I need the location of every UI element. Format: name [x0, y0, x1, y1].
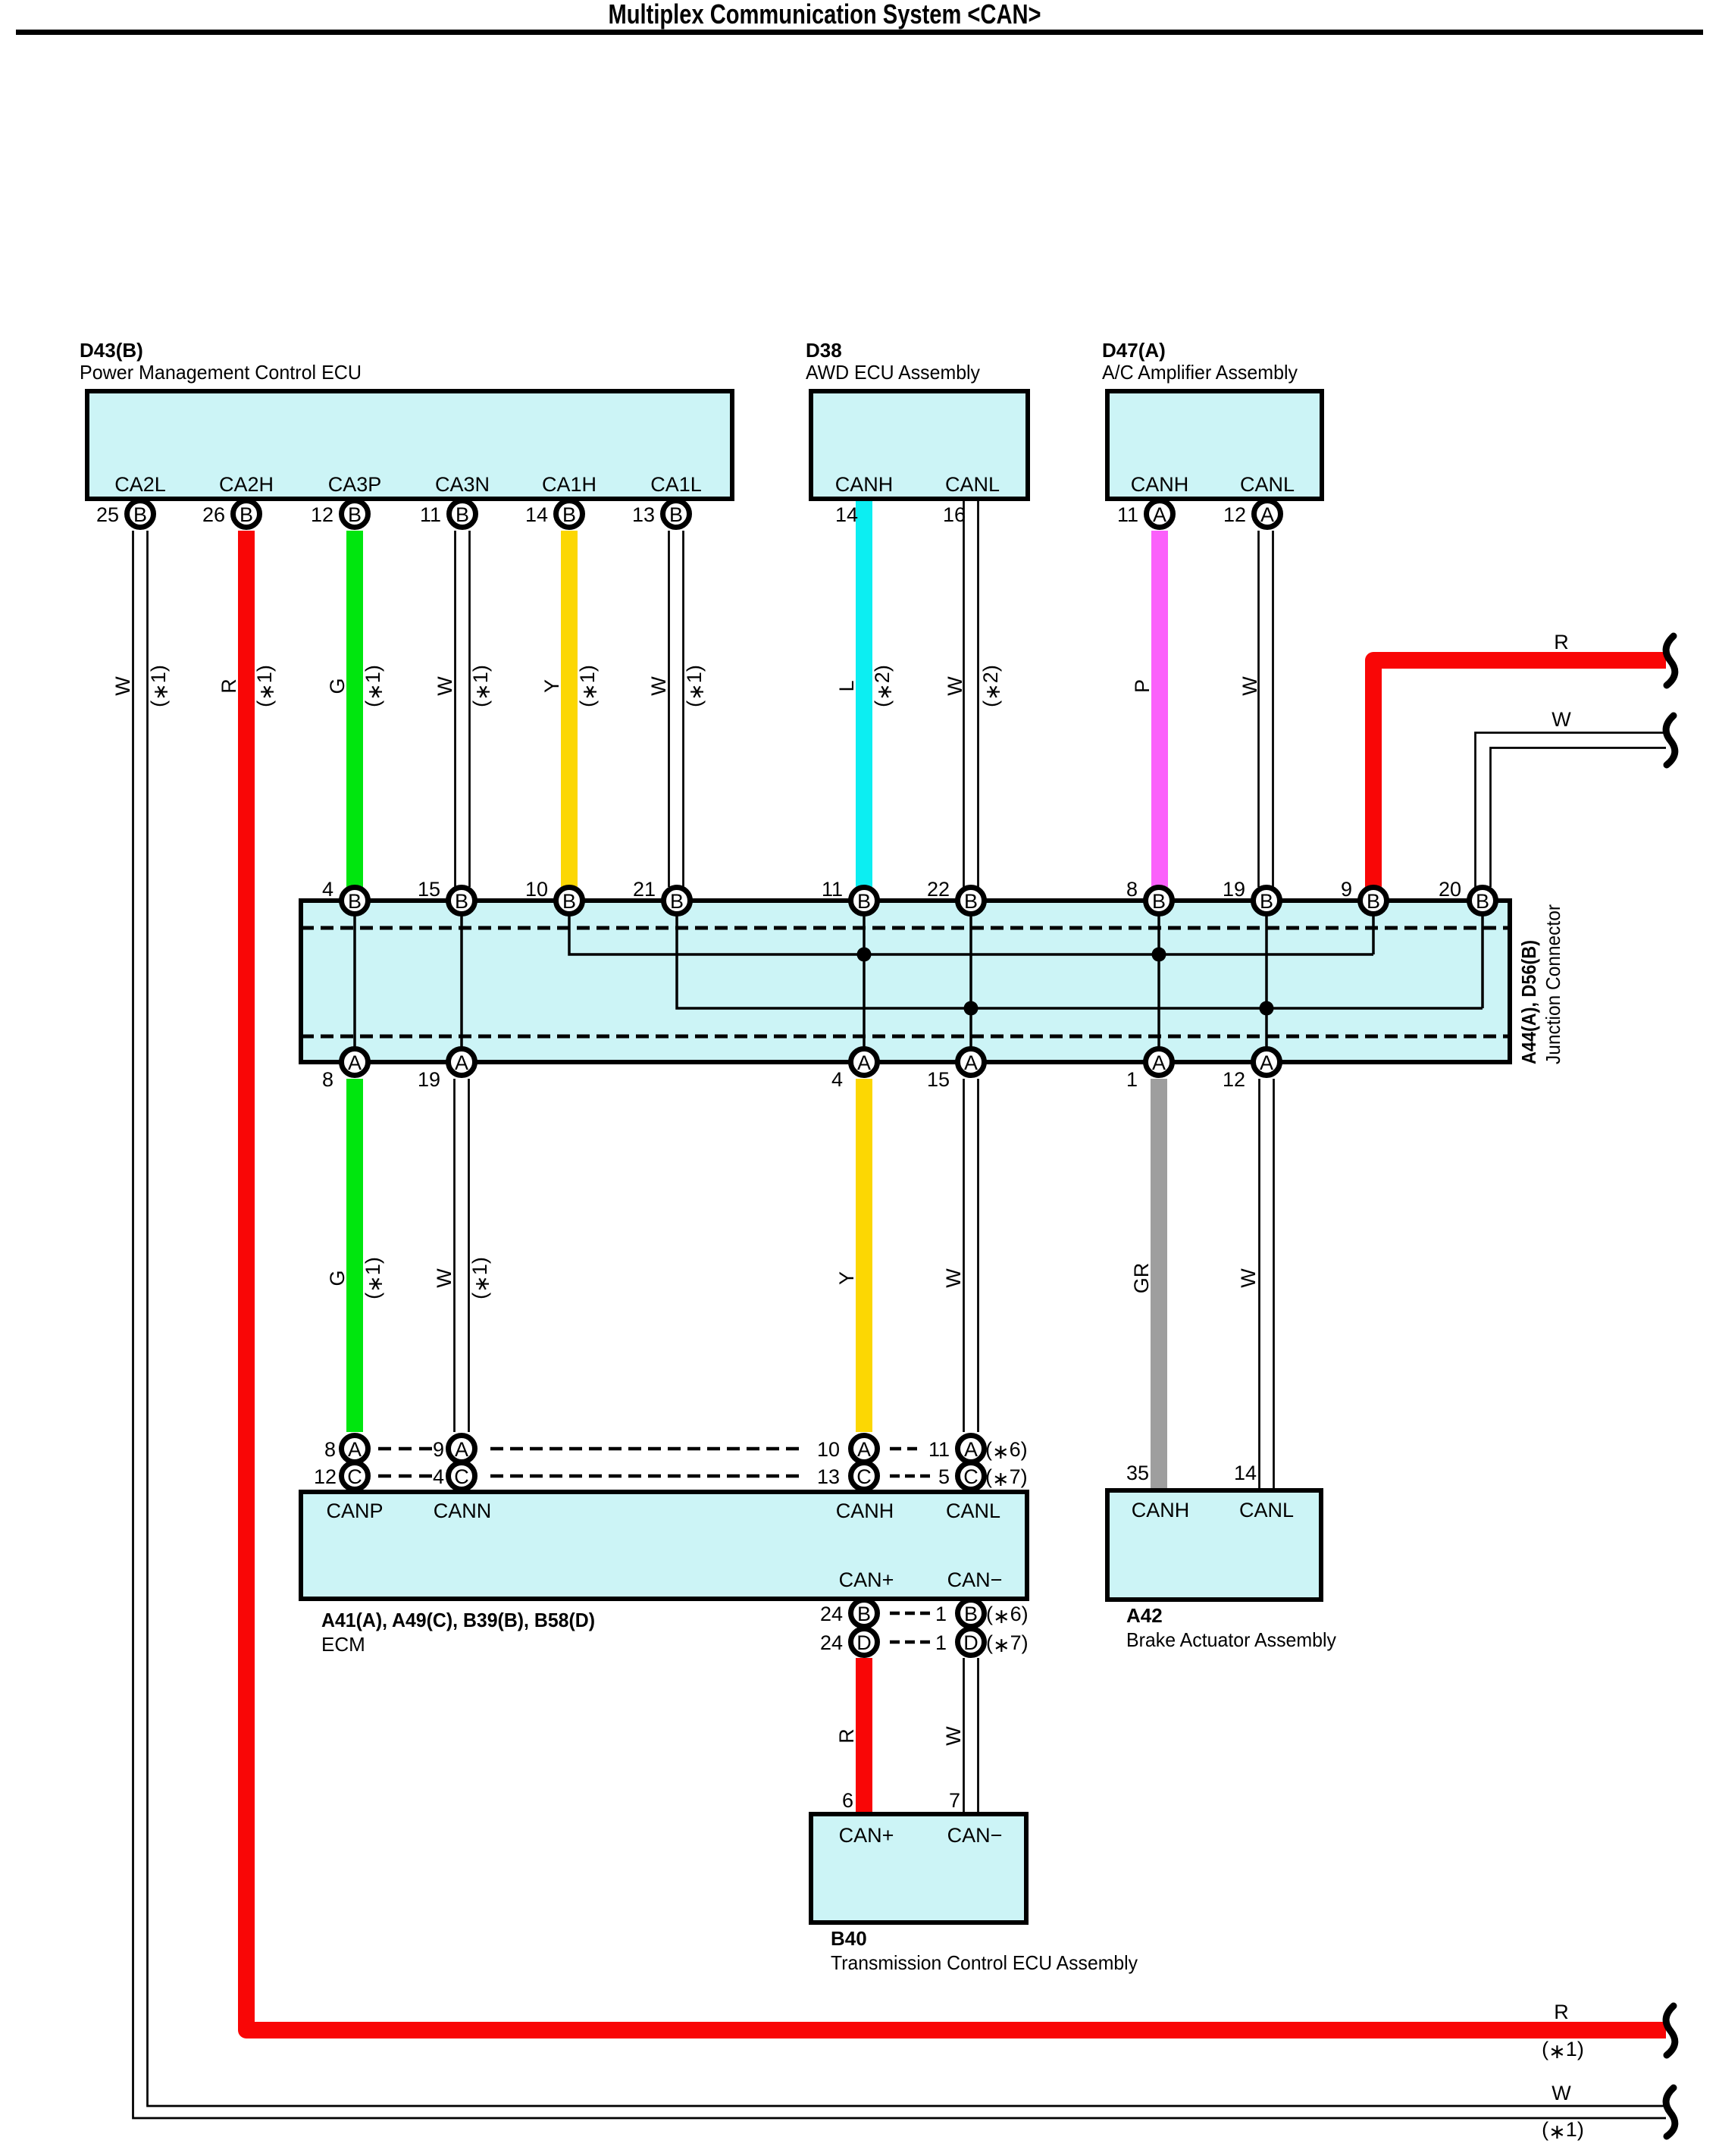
svg-text:CANN: CANN	[434, 1499, 492, 1522]
ECM terminal 11(A)	[958, 1436, 985, 1462]
junction bottom pin 8(A)	[342, 1049, 368, 1076]
terminal D43 pin 25(B)	[127, 501, 154, 528]
svg-text:R: R	[218, 678, 240, 694]
svg-text:24: 24	[820, 1631, 843, 1654]
svg-text:B: B	[857, 890, 871, 913]
svg-text:15: 15	[418, 878, 440, 901]
svg-text:11: 11	[822, 878, 843, 901]
svg-text:A: A	[1260, 503, 1274, 526]
svg-text:12: 12	[1223, 1068, 1245, 1091]
svg-text:13: 13	[632, 503, 655, 526]
svg-text:26: 26	[202, 503, 225, 526]
svg-text:10: 10	[525, 878, 548, 901]
wire white W: junction 12(A) to brake actuator pin 14	[1258, 1079, 1260, 1488]
junction dot CANL x 19(B)	[1260, 1001, 1274, 1016]
svg-text:(∗6): (∗6)	[986, 1603, 1029, 1628]
svg-text:W: W	[433, 1268, 456, 1288]
svg-text:CANH: CANH	[1132, 1499, 1190, 1521]
break symbol on red wire top right	[1666, 636, 1675, 685]
svg-text:(∗7): (∗7)	[986, 1631, 1029, 1656]
svg-text:(∗1): (∗1)	[469, 665, 494, 707]
svg-text:A: A	[964, 1438, 978, 1461]
svg-text:B: B	[562, 890, 576, 913]
brake actuator A42 box	[1107, 1490, 1321, 1600]
svg-text:Y: Y	[835, 1271, 858, 1285]
wire CA1L white W (*1): D43 pin 13(B) to junction 21(B)	[668, 531, 670, 887]
svg-text:Multiplex Communication System: Multiplex Communication System <CAN>	[609, 0, 1041, 30]
svg-text:20: 20	[1439, 878, 1461, 901]
svg-text:B40: B40	[831, 1927, 867, 1950]
wire D47 CANL white W: pin 12(A) to junction 19(B)	[1257, 531, 1260, 887]
svg-text:4: 4	[831, 1068, 843, 1091]
wire CA2H red: D43 pin 26(B) down then right to page edge (R *1)	[246, 531, 1666, 2030]
svg-text:CANH: CANH	[1131, 473, 1189, 496]
ECM terminal 1(B)	[958, 1600, 985, 1627]
svg-text:11: 11	[1117, 503, 1138, 526]
svg-text:CA1L: CA1L	[650, 473, 702, 496]
svg-text:B: B	[455, 890, 468, 913]
terminal D47 pin 12(A)	[1254, 501, 1281, 528]
junction top pin 20(B)	[1470, 888, 1496, 914]
svg-text:A: A	[455, 1438, 468, 1461]
ECM terminal 12(C)	[342, 1463, 368, 1490]
junction top pin 10(B)	[556, 888, 583, 914]
svg-text:W: W	[111, 676, 134, 696]
svg-text:(∗1): (∗1)	[683, 665, 708, 707]
junction connector A44(A) D56(B) box	[301, 901, 1510, 1062]
junction internal wire 15(B)-19(A)	[460, 901, 463, 1062]
junction internal wire 19(B)-12(A)	[1265, 901, 1268, 1062]
svg-text:A: A	[1152, 1051, 1166, 1074]
junction dot CANH x 8(B)	[1152, 948, 1166, 962]
svg-text:CANL: CANL	[1239, 1499, 1294, 1521]
junction bottom pin 1(A)	[1146, 1049, 1173, 1076]
svg-text:W: W	[1551, 708, 1571, 731]
svg-text:G: G	[326, 1270, 349, 1286]
svg-text:CANH: CANH	[835, 473, 894, 496]
title rule	[16, 30, 1703, 35]
junction bottom pin 15(A)	[958, 1049, 985, 1076]
svg-text:(∗2): (∗2)	[979, 665, 1004, 707]
svg-text:CAN+: CAN+	[839, 1568, 894, 1591]
svg-text:B: B	[1260, 890, 1273, 913]
wire green G (*1): junction 8(A) to ECM 8(A)/12(C)	[346, 1079, 363, 1432]
svg-text:C: C	[963, 1465, 978, 1488]
svg-text:12: 12	[1223, 503, 1246, 526]
svg-text:CA2H: CA2H	[219, 473, 274, 496]
svg-text:B: B	[1152, 890, 1166, 913]
svg-text:A: A	[857, 1051, 871, 1074]
ECM option dashes row B bottom	[890, 1612, 930, 1615]
svg-text:W: W	[1551, 2082, 1571, 2104]
wire CA3N white W (*1): D43 pin 11(B) to junction 15(B)	[454, 531, 456, 887]
svg-text:12: 12	[314, 1465, 337, 1488]
wire yellow Y: junction 4(A) to ECM 10(A)/13(C)	[856, 1079, 872, 1432]
svg-text:(∗2): (∗2)	[871, 665, 896, 707]
ECM terminal 1(D)	[958, 1629, 985, 1656]
break symbol on red wire bottom right	[1666, 2006, 1675, 2055]
terminal D43 pin 13(B)	[663, 501, 690, 528]
terminal D43 pin 14(B)	[556, 501, 583, 528]
svg-text:11: 11	[928, 1438, 950, 1461]
terminal D47 pin 11(A)	[1147, 501, 1173, 528]
svg-text:B: B	[133, 503, 147, 526]
junction internal lower dashed bus guide	[301, 1035, 1510, 1039]
terminal D43 pin 12(B)	[342, 501, 368, 528]
wire CA1H yellow Y (*1): D43 pin 14(B) to junction 10(B)	[561, 531, 578, 887]
svg-text:10: 10	[817, 1438, 840, 1461]
svg-text:B: B	[1367, 890, 1380, 913]
junction top pin 22(B)	[958, 888, 985, 914]
svg-text:G: G	[326, 678, 349, 694]
terminal D43 pin 11(B)	[449, 501, 476, 528]
svg-text:B: B	[669, 503, 683, 526]
svg-text:L: L	[835, 680, 858, 691]
svg-text:GR: GR	[1130, 1263, 1153, 1294]
svg-text:W: W	[942, 1268, 965, 1288]
wire gray GR: junction 1(A) to brake actuator pin 35	[1151, 1079, 1167, 1488]
junction internal wire from 20(B) to CANL bus	[1481, 901, 1484, 1008]
svg-text:Transmission Control ECU Assem: Transmission Control ECU Assembly	[831, 1951, 1138, 1974]
svg-text:CAN−: CAN−	[947, 1824, 1003, 1847]
svg-text:W: W	[944, 676, 966, 696]
svg-text:D38: D38	[806, 339, 842, 362]
svg-text:8: 8	[322, 1068, 333, 1091]
junction top pin 8(B)	[1146, 888, 1173, 914]
svg-text:AWD ECU Assembly: AWD ECU Assembly	[806, 361, 980, 384]
svg-text:W: W	[434, 676, 456, 696]
svg-text:9: 9	[1341, 878, 1352, 901]
svg-text:1: 1	[935, 1603, 947, 1625]
svg-text:W: W	[647, 676, 670, 696]
svg-text:(∗1): (∗1)	[362, 1257, 387, 1299]
svg-text:6: 6	[842, 1789, 853, 1812]
svg-text:B: B	[240, 503, 253, 526]
svg-text:CAN−: CAN−	[947, 1568, 1003, 1591]
svg-text:14: 14	[1234, 1462, 1257, 1484]
svg-text:B: B	[456, 503, 469, 526]
svg-text:15: 15	[927, 1068, 950, 1091]
junction bottom pin 12(A)	[1254, 1049, 1280, 1076]
wire white W: ECM CAN- 1(D) to B40 pin 7	[963, 1658, 965, 1812]
svg-text:CANP: CANP	[326, 1499, 383, 1522]
ECM option dashes row A	[378, 1447, 432, 1451]
svg-text:D47(A): D47(A)	[1102, 339, 1166, 362]
junction dot CANL x 22(B)	[964, 1001, 978, 1016]
ECM terminal 24(B)	[851, 1600, 878, 1627]
wire white W: junction 15(A) to ECM 11(A)/5(C)	[963, 1079, 965, 1432]
svg-text:12: 12	[311, 503, 333, 526]
junction top pin 21(B)	[664, 888, 690, 914]
svg-text:4: 4	[433, 1465, 444, 1488]
svg-text:R: R	[1554, 631, 1569, 653]
svg-text:CA3N: CA3N	[435, 473, 490, 496]
wire white W from right page edge to junction 20(B)	[1476, 733, 1667, 888]
transmission control ECU B40 box	[811, 1814, 1026, 1923]
wire white W (*1): junction 19(A) to ECM 9(A)/4(C)	[453, 1079, 456, 1432]
svg-text:4: 4	[322, 878, 333, 901]
svg-text:14: 14	[835, 503, 858, 526]
svg-text:B: B	[562, 503, 576, 526]
svg-text:C: C	[454, 1465, 469, 1488]
ECU D47(A) A/C Amplifier Assembly box	[1107, 391, 1322, 499]
svg-text:A: A	[1153, 503, 1166, 526]
svg-text:25: 25	[96, 503, 119, 526]
svg-text:P: P	[1131, 679, 1154, 693]
svg-text:24: 24	[820, 1603, 843, 1625]
svg-text:CANL: CANL	[946, 1499, 1000, 1522]
svg-text:C: C	[856, 1465, 872, 1488]
terminal D43 pin 26(B)	[233, 501, 260, 528]
svg-text:R: R	[1554, 2001, 1569, 2023]
svg-text:A42: A42	[1126, 1604, 1163, 1627]
break symbol on white wire bottom right	[1666, 2088, 1675, 2136]
ECM option dashes row D bottom	[890, 1641, 930, 1644]
junction internal wire 22(B)-15(A)	[969, 901, 972, 1062]
svg-text:ECM: ECM	[321, 1633, 365, 1656]
wire CA3P green G (*1): D43 pin 12(B) to junction 4(B)	[346, 531, 363, 887]
ECU D38 AWD ECU Assembly box	[811, 391, 1028, 499]
svg-text:B: B	[964, 1603, 978, 1625]
svg-text:(∗1): (∗1)	[147, 665, 172, 707]
svg-text:D: D	[963, 1631, 978, 1654]
ECM terminal 10(A)	[851, 1436, 878, 1462]
svg-text:Power Management Control ECU: Power Management Control ECU	[80, 361, 362, 384]
break symbol on white wire top right	[1666, 716, 1675, 765]
ECM terminal 5(C)	[958, 1463, 985, 1490]
svg-text:(∗1): (∗1)	[253, 665, 278, 707]
svg-text:B: B	[857, 1603, 871, 1625]
svg-text:7: 7	[949, 1789, 960, 1812]
junction top pin 19(B)	[1254, 888, 1280, 914]
svg-text:CANL: CANL	[1240, 473, 1295, 496]
junction top pin 4(B)	[342, 888, 368, 914]
svg-text:D: D	[856, 1631, 872, 1654]
svg-text:19: 19	[1223, 878, 1245, 901]
svg-text:A41(A), A49(C), B39(B), B58(D): A41(A), A49(C), B39(B), B58(D)	[321, 1609, 595, 1631]
svg-text:(∗7): (∗7)	[985, 1465, 1028, 1490]
svg-text:A: A	[455, 1051, 468, 1074]
svg-text:A44(A), D56(B): A44(A), D56(B)	[1517, 940, 1540, 1064]
svg-text:14: 14	[525, 503, 548, 526]
svg-text:21: 21	[633, 878, 656, 901]
svg-text:A: A	[857, 1438, 871, 1461]
wire red R: ECM CAN+ 24(D) to B40 pin 6	[856, 1658, 872, 1812]
junction dot CANH x 11(B)	[857, 948, 872, 962]
svg-text:(∗1): (∗1)	[362, 665, 387, 707]
svg-text:CA1H: CA1H	[542, 473, 596, 496]
junction top pin 11(B)	[851, 888, 878, 914]
svg-text:5: 5	[938, 1465, 950, 1488]
svg-text:A: A	[1260, 1051, 1273, 1074]
svg-text:16: 16	[943, 503, 966, 526]
wire CA2L white: D43 pin 25(B) down then right to page edge (W *1)	[133, 531, 1667, 2118]
svg-text:C: C	[347, 1465, 362, 1488]
svg-text:CA2L: CA2L	[114, 473, 166, 496]
svg-text:Brake Actuator Assembly: Brake Actuator Assembly	[1126, 1628, 1336, 1651]
svg-text:B: B	[348, 503, 362, 526]
svg-text:(∗1): (∗1)	[1542, 2118, 1584, 2143]
svg-text:R: R	[835, 1728, 858, 1744]
svg-text:A: A	[964, 1051, 978, 1074]
ECM terminal 13(C)	[851, 1463, 878, 1490]
ECM terminal 8(A)	[342, 1436, 368, 1462]
ECM terminal 4(C)	[449, 1463, 475, 1490]
ECU D43(B) Power Management Control ECU box	[87, 391, 732, 499]
junction internal wire 4(B)-8(A)	[353, 901, 356, 1062]
svg-text:19: 19	[418, 1068, 440, 1091]
ECM terminal 24(D)	[851, 1629, 878, 1656]
svg-text:13: 13	[817, 1465, 840, 1488]
svg-text:W: W	[1238, 676, 1261, 696]
wire D47 CANH pink P: pin 11(A) to junction 8(B)	[1151, 531, 1168, 887]
svg-text:35: 35	[1126, 1462, 1149, 1484]
junction internal wire 8(B)-1(A)	[1157, 901, 1160, 1062]
junction internal upper dashed bus guide	[301, 926, 1510, 930]
svg-text:W: W	[942, 1726, 965, 1746]
svg-text:CANH: CANH	[836, 1499, 894, 1522]
svg-text:CAN+: CAN+	[839, 1824, 894, 1847]
junction internal wire from 10(B) to CANH bus	[569, 901, 1373, 954]
ECM terminal 9(A)	[449, 1436, 475, 1462]
svg-text:22: 22	[927, 878, 950, 901]
junction internal wire 11(B)-4(A)	[863, 901, 866, 1062]
svg-text:11: 11	[420, 503, 441, 526]
svg-text:A: A	[348, 1438, 362, 1461]
svg-text:(∗1): (∗1)	[576, 665, 601, 707]
svg-text:9: 9	[433, 1438, 444, 1461]
svg-text:1: 1	[935, 1631, 947, 1654]
svg-text:(∗1): (∗1)	[1542, 2038, 1584, 2063]
wire D38 CANH cyan L (*2): to junction 11(B)	[856, 501, 872, 887]
junction bottom pin 19(A)	[449, 1049, 475, 1076]
svg-text:Junction Connector: Junction Connector	[1542, 904, 1564, 1064]
svg-text:A/C Amplifier Assembly: A/C Amplifier Assembly	[1102, 361, 1298, 384]
ECM box A41(A), A49(C), B39(B), B58(D)	[301, 1492, 1027, 1599]
junction internal wire from 21(B) to CANL bus	[677, 901, 1483, 1008]
svg-text:B: B	[670, 890, 684, 913]
svg-text:CANL: CANL	[945, 473, 1000, 496]
ECM option dashes row C	[378, 1474, 432, 1478]
svg-text:(∗6): (∗6)	[985, 1438, 1028, 1463]
junction top pin 15(B)	[449, 888, 475, 914]
svg-text:B: B	[1476, 890, 1489, 913]
svg-text:B: B	[964, 890, 978, 913]
junction bottom pin 4(A)	[851, 1049, 878, 1076]
svg-text:B: B	[348, 890, 362, 913]
svg-text:8: 8	[1126, 878, 1138, 901]
wire D38 CANL white W (*2): to junction 22(B)	[963, 501, 965, 887]
svg-text:CA3P: CA3P	[328, 473, 382, 496]
svg-text:(∗1): (∗1)	[468, 1257, 493, 1299]
svg-text:1: 1	[1126, 1068, 1138, 1091]
junction internal wire from 9(B) to CANH bus	[1372, 901, 1375, 954]
junction top pin 9(B)	[1360, 888, 1387, 914]
svg-text:Y: Y	[540, 679, 563, 693]
svg-text:8: 8	[324, 1438, 336, 1461]
svg-text:W: W	[1237, 1268, 1260, 1288]
wire red R from right page edge to junction 9(B)	[1373, 660, 1666, 887]
svg-text:D43(B): D43(B)	[80, 339, 143, 362]
svg-text:A: A	[348, 1051, 362, 1074]
